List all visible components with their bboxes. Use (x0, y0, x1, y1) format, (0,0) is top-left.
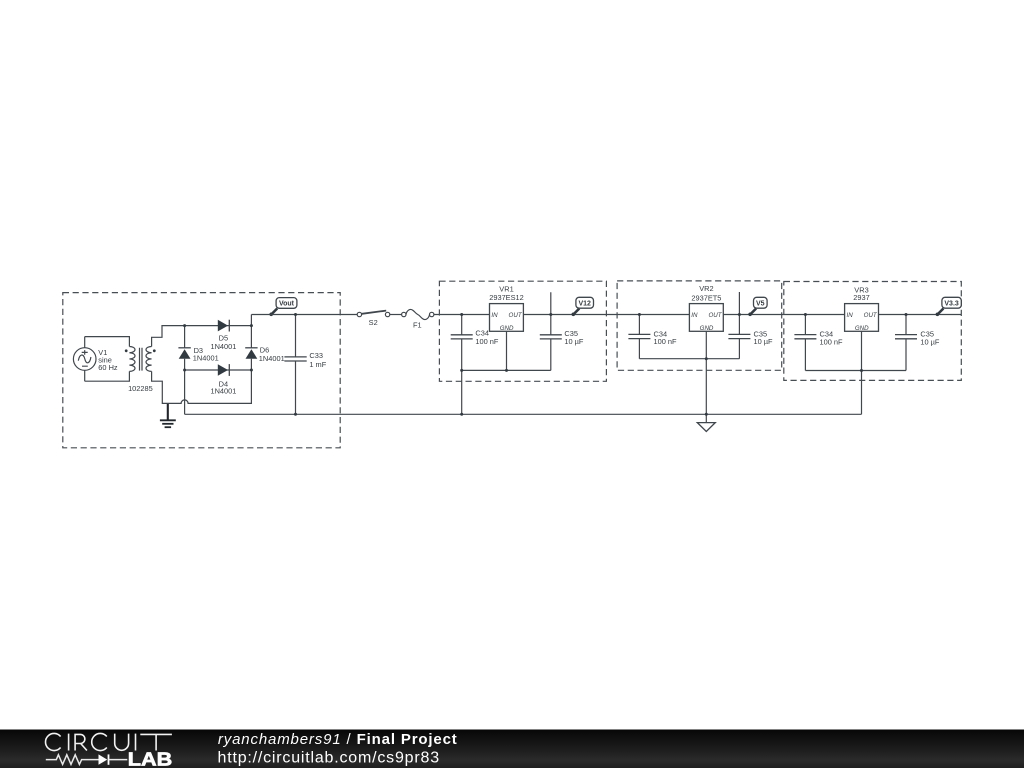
svg-text:10 µF: 10 µF (564, 337, 584, 346)
transformer T1 (102285) primary winding (129, 347, 135, 372)
footer bar (0, 730, 1024, 768)
svg-text:V3.3: V3.3 (944, 300, 959, 307)
stage2 ground drop to bottom rail (705, 359, 707, 415)
wire V1 to transformer primary (85, 337, 130, 382)
svg-text:F1: F1 (413, 320, 422, 329)
voltage source V1 (73, 337, 96, 382)
VR3 GND pin wire (861, 331, 863, 370)
capacitor C34 (stage 1) (451, 315, 499, 371)
stage3 ground drop joining bottom rail end (861, 371, 863, 415)
svg-text:Vout: Vout (279, 301, 295, 308)
wire secondary bottom (B) with hop over ground-rail drop (152, 370, 252, 403)
net flag V12 (572, 297, 594, 316)
earth ground G1 (160, 404, 176, 427)
footer url (218, 750, 440, 767)
chassis ground symbol (697, 414, 715, 431)
svg-text:V5: V5 (756, 300, 765, 307)
svg-text:IN: IN (847, 312, 854, 319)
CircuitLab logo wordmark CIRCUIT (drawn thin letters) (46, 733, 172, 750)
svg-text:1N4001: 1N4001 (193, 353, 219, 362)
svg-text:102285: 102285 (128, 384, 153, 393)
svg-text:GND: GND (700, 325, 714, 332)
transformer secondary winding (146, 347, 152, 372)
wire node C riser to output rail (250, 315, 252, 326)
dashed enclosure box 4 (3.3V regulator stage) (784, 282, 962, 381)
CircuitLab logo wordmark LAB (128, 749, 173, 768)
diode D3 (vertical, node A to minus node) (178, 326, 218, 370)
diode D4 (210, 364, 236, 395)
voltage regulator VR3 2937 (845, 285, 879, 331)
transformer label 102285 (128, 384, 153, 393)
switch S2 (357, 311, 390, 327)
VR2 GND pin wire (705, 331, 707, 358)
capacitor C34 (stage 2) (628, 315, 677, 359)
diode D6 (vertical, node C to node B) (245, 326, 284, 370)
svg-text:C33: C33 (309, 351, 323, 360)
net flag V5 (748, 297, 767, 316)
svg-text:VR2: VR2 (699, 284, 713, 293)
svg-text:1 mF: 1 mF (309, 360, 326, 369)
svg-text:GND: GND (500, 325, 514, 332)
capacitor C35 (stage 3) (895, 315, 940, 371)
capacitor C34 (stage 3) (794, 315, 843, 371)
svg-text:1N4001: 1N4001 (259, 354, 285, 363)
bridge mid rail (185, 369, 252, 371)
svg-text:IN: IN (491, 312, 498, 319)
main output rail (node C to switch) (251, 314, 357, 316)
diode D5 (210, 320, 236, 352)
capacitor C35 (stage 2) with stub above rail (728, 292, 773, 359)
svg-text:100 nF: 100 nF (475, 337, 498, 346)
svg-text:GND: GND (855, 325, 869, 332)
svg-text:2937: 2937 (853, 293, 869, 302)
svg-text:OUT: OUT (864, 312, 878, 319)
dashed enclosure box 1 (rectifier stage) (63, 293, 340, 448)
svg-text:2937ET5: 2937ET5 (691, 293, 721, 302)
wire VR1 OUT (523, 314, 689, 316)
net flag Vout (269, 298, 296, 317)
capacitor C35 (stage 1) with stub above rail (540, 292, 584, 370)
wire secondary top to node A (152, 326, 185, 347)
svg-text:1N4001: 1N4001 (210, 386, 236, 395)
svg-text:IN: IN (691, 312, 698, 319)
stage2 inner ground rail (639, 358, 739, 360)
wire F1 into regulator stage 1 (434, 314, 490, 316)
stage3 inner ground rail (805, 370, 906, 372)
wire VR3 OUT to box edge (879, 314, 962, 316)
svg-text:OUT: OUT (509, 312, 523, 319)
svg-text:1N4001: 1N4001 (210, 342, 236, 351)
svg-text:100 nF: 100 nF (820, 337, 843, 346)
voltage regulator VR2 2937ET5 (689, 284, 723, 332)
transformer phase dots (125, 349, 156, 352)
svg-text:ryanchambers91 / Final Project: ryanchambers91 / Final Project (218, 731, 458, 748)
svg-text:V12: V12 (578, 300, 591, 307)
svg-text:http://circuitlab.com/cs9pr83: http://circuitlab.com/cs9pr83 (218, 750, 440, 767)
svg-text:LAB: LAB (128, 749, 173, 768)
svg-text:2937ES12: 2937ES12 (489, 293, 524, 302)
bridge top rail node A to node C (185, 325, 252, 327)
voltage regulator VR1 2937ES12 (489, 285, 524, 332)
dashed enclosure box 3 (5V regulator stage) (617, 281, 782, 370)
wire VR2 OUT (723, 314, 844, 316)
svg-text:S2: S2 (369, 318, 378, 327)
net flag V3.3 (936, 297, 962, 316)
transformer core (140, 348, 143, 371)
label V1 sine 60 Hz (98, 348, 118, 372)
VR1 GND pin wire (506, 331, 508, 370)
footer project title (218, 731, 458, 748)
long bottom ground rail (185, 413, 862, 415)
svg-text:OUT: OUT (708, 312, 722, 319)
CircuitLab logo resistor-diode glyph (46, 754, 128, 764)
dashed enclosure box 2 (12V regulator stage) (439, 281, 606, 381)
minus-node drop to bottom rail (184, 370, 186, 414)
junction node dots (183, 313, 907, 416)
svg-text:10 µF: 10 µF (754, 337, 774, 346)
fuse F1 (402, 309, 434, 329)
wire S2 to F1 (390, 314, 402, 316)
svg-text:100 nF: 100 nF (654, 337, 677, 346)
svg-text:60 Hz: 60 Hz (98, 363, 118, 372)
svg-text:10 µF: 10 µF (920, 337, 940, 346)
capacitor C33 (284, 315, 326, 415)
stage1 ground drop to bottom rail (461, 370, 463, 414)
stage1 inner ground rail (462, 369, 551, 371)
